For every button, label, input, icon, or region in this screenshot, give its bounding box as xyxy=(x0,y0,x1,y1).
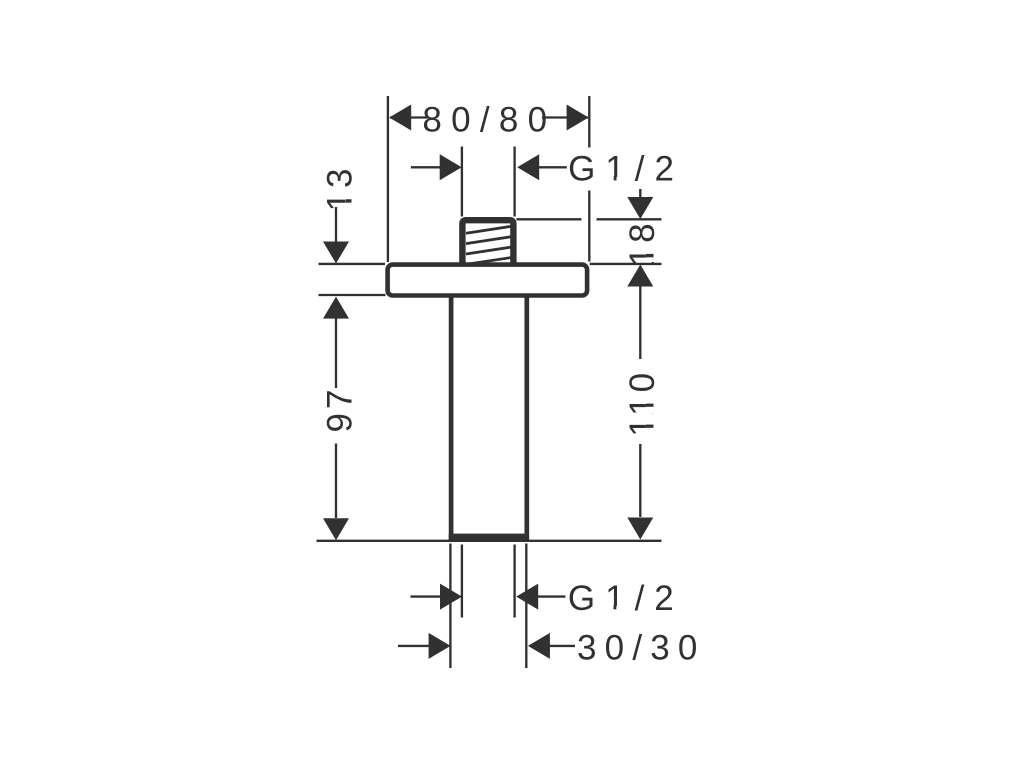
extension line thread left xyxy=(461,147,463,217)
reference line plate top left xyxy=(319,263,386,265)
svg-text:G1/2: G1/2 xyxy=(568,579,684,618)
svg-text:30/30: 30/30 xyxy=(577,629,706,668)
arrow G1/2 top pointing right xyxy=(440,154,462,180)
digit 1 foot removal patches (match geometric font) xyxy=(346,176,656,611)
extension line 80/80 left xyxy=(387,96,389,262)
svg-text:18: 18 xyxy=(623,219,662,266)
extension line bottom outer right xyxy=(525,544,527,669)
arrow 110 down xyxy=(627,518,653,540)
svg-text:110: 110 xyxy=(623,369,662,437)
arrow 13 down xyxy=(323,242,349,264)
dimension G1/2 top xyxy=(411,166,567,168)
pipe bottom cap xyxy=(449,534,529,542)
thread hatch lines xyxy=(466,226,512,264)
extension line 80/80 right lower xyxy=(588,191,590,262)
arrow G1/2 top pointing left xyxy=(517,154,539,180)
arrow G1/2 bottom pointing right xyxy=(440,584,462,610)
reference line thread top left part xyxy=(517,218,582,220)
arrow 18 down xyxy=(627,197,653,219)
reference line pipe bottom xyxy=(317,540,662,542)
arrow 30/30 pointing right xyxy=(429,633,451,659)
arrow 80/80 left xyxy=(389,105,411,131)
escutcheon plate xyxy=(388,265,587,296)
dimension 80/80 xyxy=(390,116,588,118)
svg-text:97: 97 xyxy=(321,386,360,433)
pipe left wall xyxy=(449,296,454,540)
reference line plate top right xyxy=(590,263,662,265)
pipe right wall xyxy=(524,296,529,540)
extension line bottom inner left xyxy=(461,545,463,618)
svg-text:G1/2: G1/2 xyxy=(568,150,684,189)
thread body xyxy=(462,220,513,266)
dimension 97 xyxy=(323,297,349,319)
extension line bottom outer left xyxy=(449,544,451,669)
reference line plate bottom left xyxy=(319,294,386,296)
dimension G1/2 bottom xyxy=(411,595,566,597)
reference line thread top right part xyxy=(597,218,662,220)
arrow 97 down xyxy=(323,518,349,540)
svg-text:80/80: 80/80 xyxy=(422,101,556,140)
extension line thread right xyxy=(513,147,515,217)
extension line bottom inner right xyxy=(513,545,515,618)
extension line 80/80 right upper xyxy=(588,96,590,148)
dimension 13 xyxy=(335,207,337,243)
dimension 110 xyxy=(627,265,653,287)
dimension 30/30 xyxy=(398,645,575,647)
dimension 18 xyxy=(639,189,641,198)
arrow 80/80 right xyxy=(567,105,589,131)
arrow G1/2 bottom pointing left xyxy=(516,584,538,610)
arrow 30/30 pointing left xyxy=(528,633,550,659)
